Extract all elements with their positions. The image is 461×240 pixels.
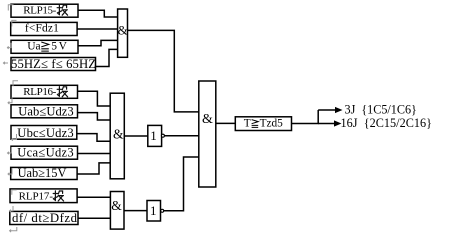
wire box7 to U2	[77, 134, 110, 142]
svg-text:Tzd5: Tzd5	[260, 118, 284, 130]
OR gate U4 (middle 1)	[148, 125, 162, 146]
box Uca<=Udz3	[11, 146, 78, 159]
box RLP16-投	[11, 85, 78, 98]
svg-text:RLP17-: RLP17-	[19, 190, 54, 202]
drawn >= double-line of timer	[252, 120, 259, 128]
wire box8 to U2	[78, 153, 111, 155]
formatting mark at box2	[12, 20, 17, 26]
svg-text:3J {1C5/1C6}: 3J {1C5/1C6}	[345, 102, 417, 116]
formatting mark at box9	[8, 168, 12, 175]
svg-text:RLP16-: RLP16-	[23, 86, 56, 98]
inversion bubble at U4 output	[161, 134, 164, 137]
svg-text:1: 1	[150, 128, 157, 143]
AND gate U3 (bottom)	[110, 192, 124, 230]
formatting mark at box3	[7, 43, 11, 49]
formatting mark below box11	[10, 227, 17, 232]
wire U5 output to U6	[164, 157, 199, 211]
svg-text:&: &	[111, 198, 122, 213]
svg-text:&: &	[118, 22, 128, 37]
wire U1 output to U6	[128, 30, 199, 112]
wire box11 to U3	[78, 217, 110, 219]
svg-text:&: &	[113, 127, 124, 142]
inversion bubble at U5 output	[161, 209, 164, 212]
wire box2 to U1	[77, 28, 118, 30]
svg-text:f<Fdz1: f<Fdz1	[25, 23, 59, 35]
wire box3 to U1	[78, 40, 118, 45]
arrowhead 3J	[335, 107, 343, 113]
box f<Fdz1	[11, 22, 77, 35]
wire U4 output to U6	[164, 135, 199, 137]
wire box6 to U2	[78, 113, 111, 120]
box Uab<=Udz3	[11, 105, 78, 118]
formatting mark at box8	[8, 147, 12, 154]
svg-text:5V: 5V	[51, 40, 67, 52]
box df/dt>=Dfzd	[10, 211, 78, 224]
wire box10 to U3	[77, 196, 110, 198]
wire box5 to U2	[78, 91, 111, 106]
formatting mark at box5	[13, 81, 18, 86]
formatting mark at box4	[3, 62, 8, 65]
hanzi of box1	[57, 5, 67, 15]
svg-text:df/ dt≥Dfzd: df/ dt≥Dfzd	[12, 211, 78, 225]
AND gate U1 (top)	[118, 9, 128, 57]
wire box4 to U1	[96, 49, 118, 66]
AND gate U6 (main)	[199, 81, 216, 187]
box RLP15-投	[11, 4, 78, 17]
wire U2 output to U4	[124, 135, 148, 137]
svg-text:Uca≤Udz3: Uca≤Udz3	[17, 146, 73, 160]
formatting mark at box11	[10, 206, 14, 212]
svg-text:&: &	[202, 112, 213, 127]
timer box T>=Tzd5	[235, 117, 291, 131]
svg-text:Uab≤Udz3: Uab≤Udz3	[18, 105, 73, 119]
wire U3 output to U5	[124, 210, 147, 212]
formatting mark at box1	[8, 5, 13, 11]
arrowhead 16J	[334, 120, 342, 126]
wire timer output with riser	[292, 110, 319, 124]
svg-text:55HZ≤ f≤ 65HZ: 55HZ≤ f≤ 65HZ	[11, 57, 96, 71]
hanzi of box5	[57, 87, 67, 97]
box Ubc<=Udz3	[11, 126, 77, 140]
wire box9 to U2	[77, 163, 110, 174]
wire box1 to U1	[78, 10, 118, 17]
formatting mark below box5	[8, 97, 12, 104]
box 55HZ<=f<=65HZ	[11, 58, 96, 71]
svg-text:T: T	[244, 118, 251, 130]
svg-text:Uab≥15V: Uab≥15V	[18, 166, 67, 180]
box Uab>=15V	[11, 167, 77, 179]
AND gate U2 (middle)	[110, 93, 124, 179]
box Ua>=5V	[11, 40, 78, 53]
wire arrow branch 3J	[318, 109, 336, 111]
drawn >= double-line of box3	[41, 42, 49, 51]
svg-text:1: 1	[150, 203, 157, 218]
svg-text:RLP15-: RLP15-	[23, 4, 56, 16]
wire U6 output to timer	[216, 122, 236, 124]
box RLP17-投	[10, 189, 77, 203]
formatting mark at box10	[12, 190, 17, 195]
svg-text:Ubc≤Udz3: Ubc≤Udz3	[17, 126, 73, 140]
hanzi of box10	[53, 191, 63, 201]
svg-text:16J {2C15/2C16}: 16J {2C15/2C16}	[341, 116, 433, 130]
formatting mark at box7	[12, 134, 17, 141]
wire arrow branch 16J	[318, 123, 335, 125]
svg-text:Ua: Ua	[27, 40, 40, 52]
OR gate U5 (bottom 1)	[147, 201, 161, 222]
